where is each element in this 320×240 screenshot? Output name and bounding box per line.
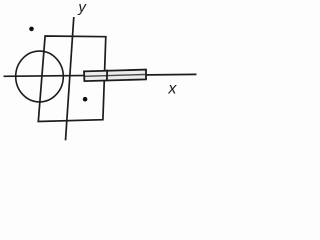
y-axis [66, 17, 74, 140]
circle [16, 51, 64, 102]
square [38, 36, 106, 122]
svg-text:y: y [77, 0, 87, 16]
svg-text:x: x [167, 81, 177, 98]
x-axis [4, 74, 197, 76]
point dot 1 [29, 27, 34, 32]
rectangle [84, 70, 146, 82]
point dot 2 [83, 97, 88, 102]
